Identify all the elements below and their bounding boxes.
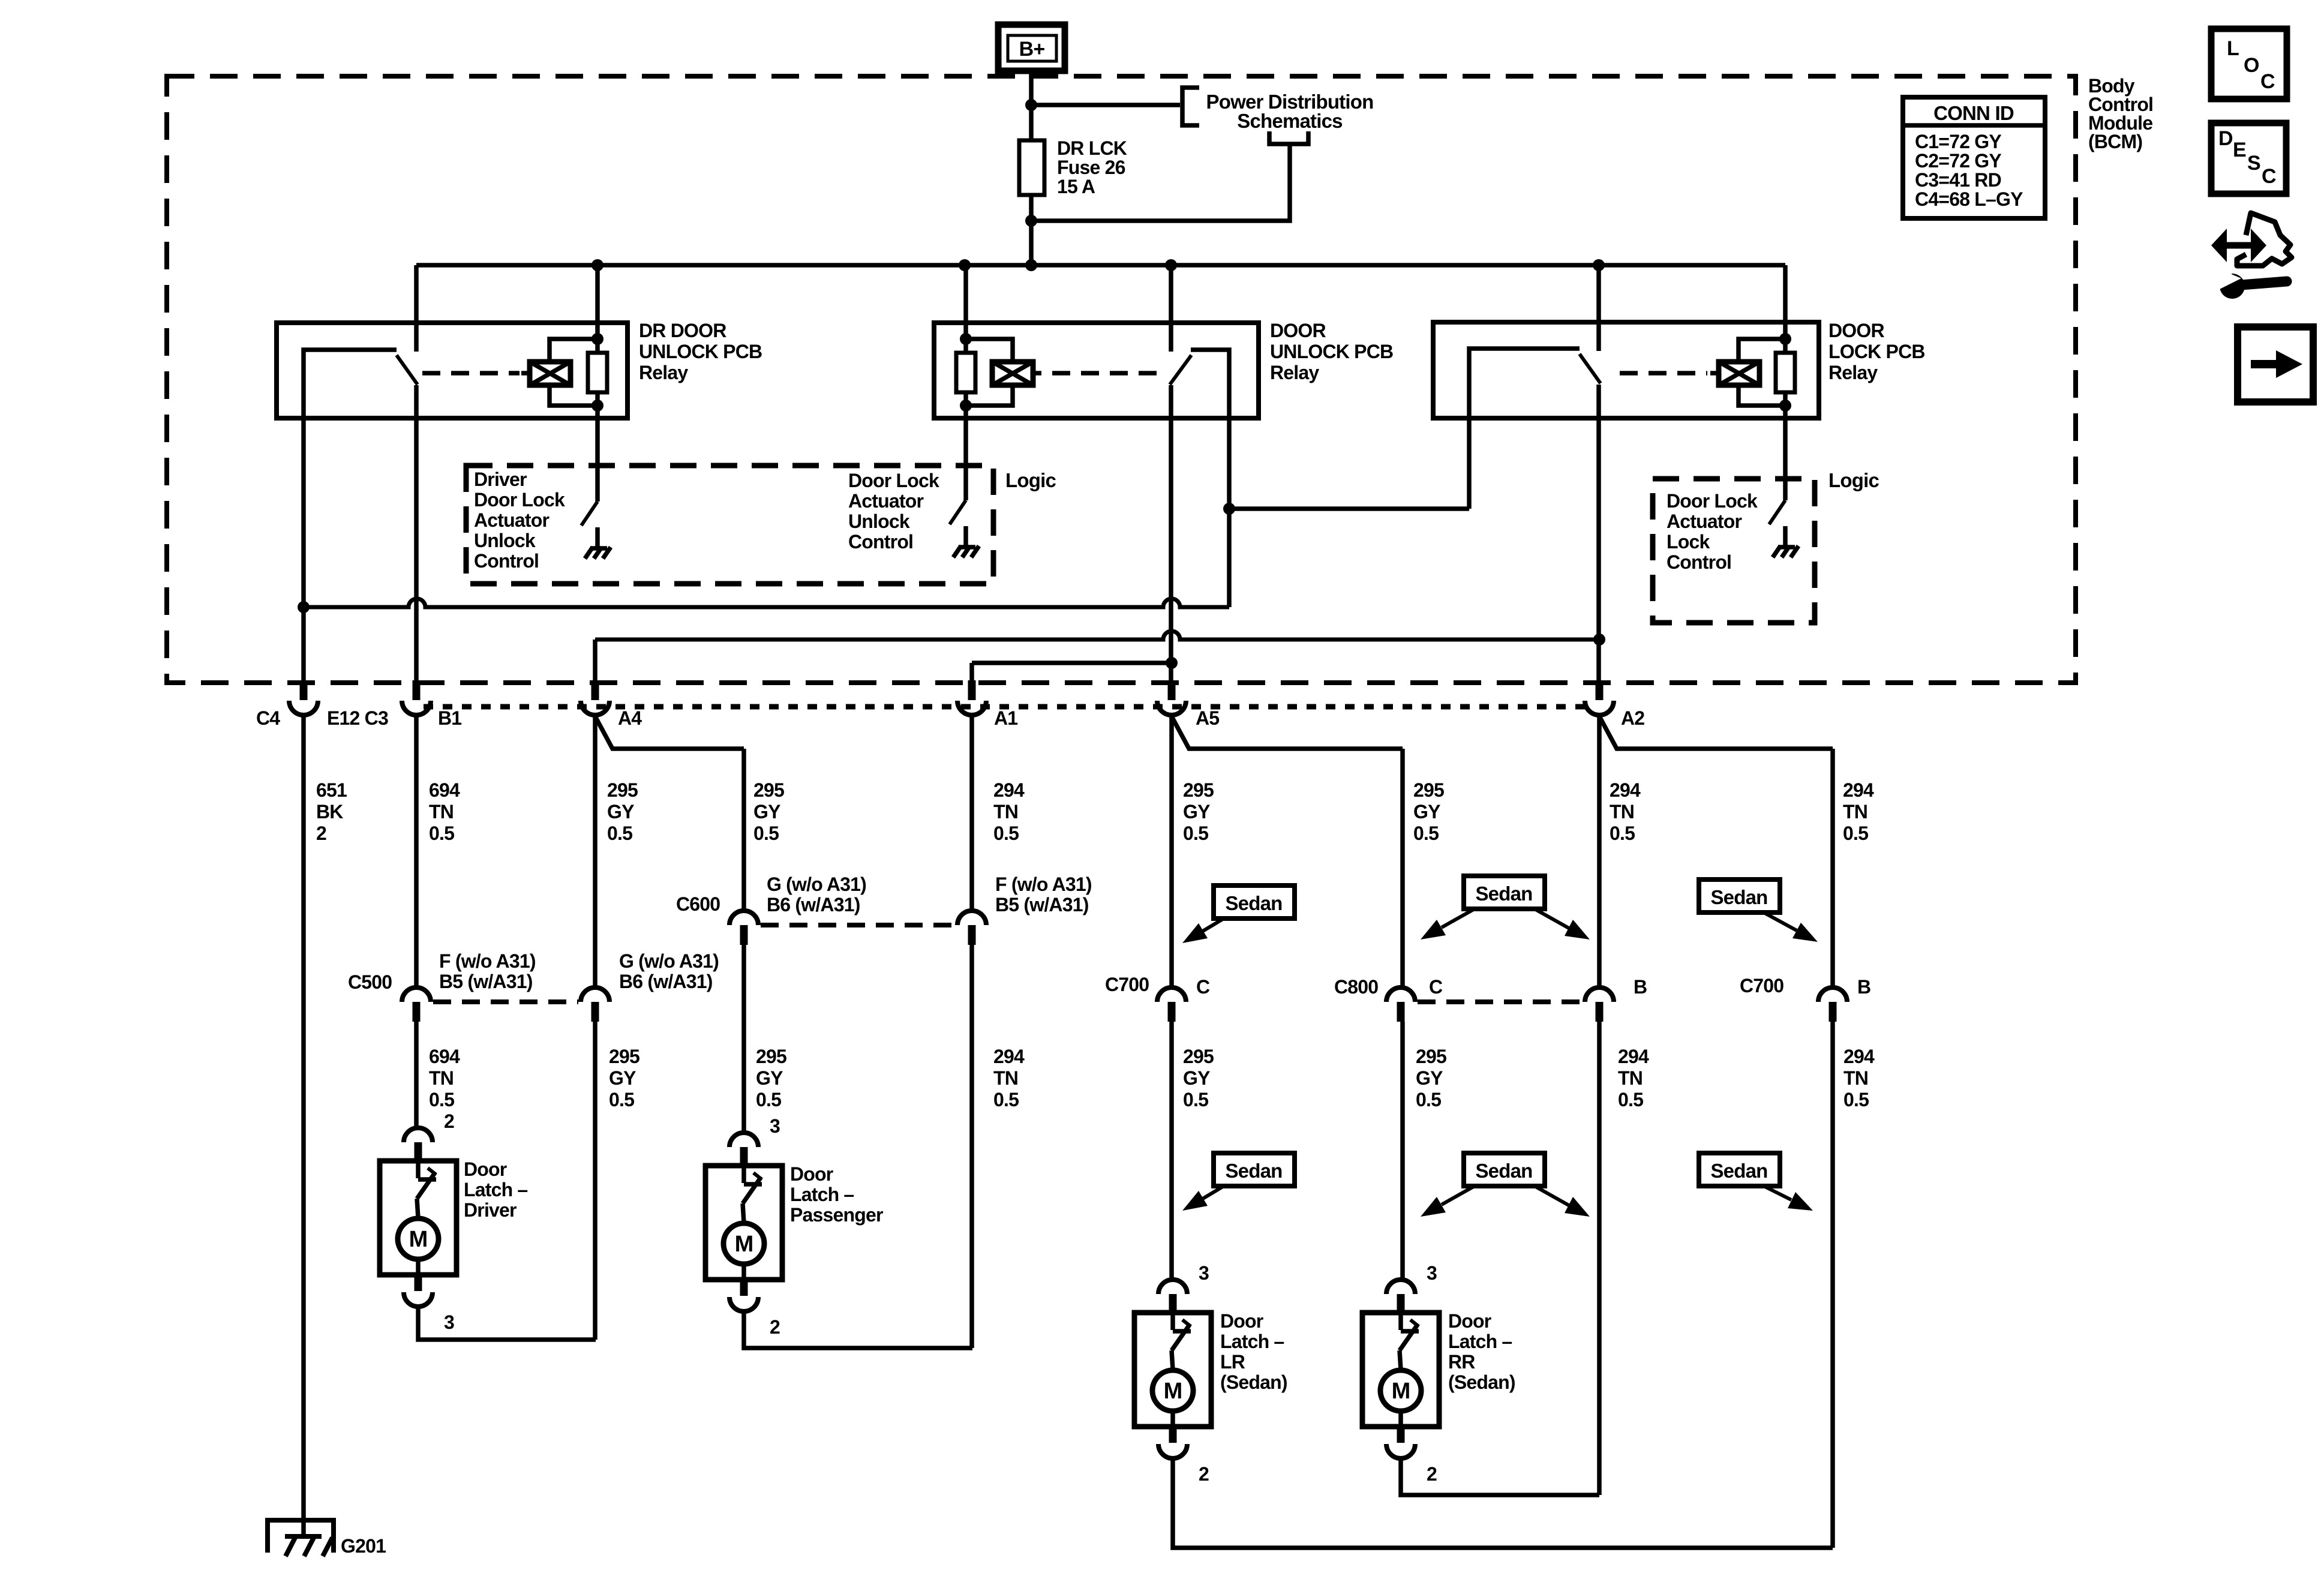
svg-text:2: 2 [1199,1463,1209,1485]
svg-text:0.5: 0.5 [429,1089,454,1110]
wire A2 294 TN to C800 [1597,715,1602,987]
actuator1 unlock control switch [581,502,597,526]
svg-text:A4: A4 [618,707,642,729]
svg-text:Actuator: Actuator [848,490,924,512]
svg-text:B6 (w/A31): B6 (w/A31) [767,894,860,915]
svg-text:C600: C600 [676,893,720,915]
BCM pin A1 shell stub [968,680,976,700]
relay3 coil stub [1710,371,1719,376]
wire relay2-relay3 switch link [1229,506,1469,511]
label Logic (unlock) [1005,469,1056,491]
svg-text:C3=41 RD: C3=41 RD [1915,169,2001,191]
svg-text:GY: GY [756,1067,783,1089]
junction dot bus relay1 coil [591,259,603,271]
svg-text:C500: C500 [348,971,392,993]
svg-text:294: 294 [1843,779,1874,801]
wire bus to relay1 switch pivot [414,265,419,352]
motor M door latch driver [398,1218,439,1259]
door latch passenger pin 2 connector [729,1280,758,1311]
motor M door latch passenger [723,1223,764,1264]
wire A4 295 GY to C500 [593,715,597,987]
relay2 coil dashed link [1052,371,1163,376]
wire tap to power distribution bracket [1031,103,1180,107]
label wire 694 TN 0.5 (B1) [429,779,460,844]
door latch passenger internal switch [743,1166,762,1223]
svg-text:0.5: 0.5 [607,822,632,844]
wire 294 TN below C700 right [1830,1022,1835,1548]
door latch driver internal switch [417,1161,436,1218]
svg-text:2: 2 [770,1316,780,1338]
BCM pin C4 connector [289,701,318,715]
svg-text:A1: A1 [994,707,1017,729]
svg-text:694: 694 [429,779,460,801]
svg-text:TN: TN [1843,801,1867,822]
BCM pin A4 shell stub [591,680,599,700]
svg-text:Control: Control [848,531,913,553]
svg-text:GY: GY [609,1067,636,1089]
label C500 pin F codes [439,950,536,992]
connector C700 pin C [1157,987,1186,1022]
svg-text:0.5: 0.5 [1416,1089,1441,1110]
relay K2 DOOR UNLOCK PCB box [934,323,1259,418]
actuator3 lock control switch [1769,500,1785,524]
junction dot bus relay2 switch [1165,259,1177,271]
svg-text:3: 3 [444,1311,454,1333]
wire driver latch return [418,1308,596,1340]
label wire 294 TN 0.5 (A2 branch) [1843,779,1874,844]
svg-text:S: S [2247,152,2260,175]
wire passenger latch return [744,1313,972,1348]
resistor R1 relay1 [588,353,607,392]
svg-text:Relay: Relay [1270,362,1319,383]
relay2 coil stub [1033,371,1041,376]
label C700 left [1105,974,1149,995]
fuse F26 DR LCK [1019,140,1044,195]
svg-text:0.5: 0.5 [1413,822,1439,844]
svg-text:TN: TN [993,801,1018,822]
label wire 294 TN 0.5 (A1) [993,779,1025,844]
svg-text:DR LCK: DR LCK [1057,137,1127,159]
svg-text:GY: GY [1416,1067,1443,1089]
wire 294 TN branch to C700 [1830,749,1835,987]
door latch driver box [380,1161,457,1275]
svg-text:D: D [2218,127,2233,150]
door latch RR pin 3 connector [1386,1280,1415,1311]
svg-text:Sedan: Sedan [1475,1160,1532,1182]
icon LOC box [2211,29,2287,99]
svg-text:(BCM): (BCM) [2088,131,2142,152]
svg-text:C4: C4 [256,707,280,729]
svg-text:295: 295 [1183,779,1214,801]
svg-text:Driver: Driver [474,469,527,490]
door latch passenger pin 3 connector [729,1133,758,1164]
svg-text:DOOR: DOOR [1270,320,1326,341]
label door latch RR [1448,1310,1515,1393]
svg-text:651: 651 [316,779,347,801]
door latch driver pin 3 connector [404,1275,433,1307]
svg-text:GY: GY [607,801,634,822]
label relay2 DOOR UNLOCK PCB Relay [1270,320,1393,383]
wire 294 TN below C800 [1597,1022,1602,1495]
svg-text:Door Lock: Door Lock [848,470,939,491]
junction dot A2 link [1593,634,1605,646]
door latch driver pin 2 connector [404,1128,433,1160]
label pin A4 [618,707,642,729]
icon wrench and arrows [2211,213,2292,299]
svg-text:GY: GY [1413,801,1440,822]
svg-text:Logic: Logic [1005,469,1056,491]
wire bus to relay1 resistor [595,265,600,353]
resistor R3 relay3 [1776,353,1795,392]
wire 295 GY branch to C800 [1400,749,1405,987]
wire 694 TN to driver latch [414,1022,419,1128]
junction dot bus fuse [1025,259,1037,271]
door latch LR internal switch [1172,1313,1191,1370]
svg-text:M: M [1392,1379,1410,1404]
BCM pin A5 shell stub [1168,680,1176,700]
svg-text:DR DOOR: DR DOOR [639,320,726,341]
svg-text:TN: TN [1618,1067,1643,1089]
junction dot relay2 switch branch [1223,503,1235,515]
label door latch driver pin 2 [444,1110,454,1132]
label C600 [676,893,720,915]
relay1 coil bottom jumper [550,385,597,406]
door latch RR pin 2 connector [1386,1427,1415,1458]
svg-text:B5 (w/A31): B5 (w/A31) [995,894,1089,915]
label wire 295 GY 0.5 (A5) [1183,779,1214,844]
wire B1 694 TN to C500 [414,715,419,987]
label Logic (lock) [1828,469,1879,491]
svg-text:Schematics: Schematics [1237,110,1342,132]
svg-text:294: 294 [993,779,1025,801]
svg-text:M: M [735,1232,753,1257]
svg-text:Fuse 26: Fuse 26 [1057,157,1125,178]
wire A1 294 TN to C600 [969,715,974,911]
svg-text:294: 294 [1610,779,1641,801]
svg-text:UNLOCK PCB: UNLOCK PCB [1270,341,1393,362]
svg-text:C4=68 L–GY: C4=68 L–GY [1915,188,2023,210]
label wire 694 TN 0.5 lower [429,1046,460,1110]
BCM pin C4 shell stub [300,680,308,700]
svg-text:F (w/o A31): F (w/o A31) [995,873,1092,895]
svg-text:E12 C3: E12 C3 [327,707,388,729]
label Door Lock Actuator Unlock Control [848,470,939,553]
label door latch LR pin 3 [1199,1262,1209,1284]
svg-text:Relay: Relay [1828,362,1878,383]
svg-text:0.5: 0.5 [1843,1089,1869,1110]
svg-text:(Sedan): (Sedan) [1220,1371,1287,1393]
connector C800 pin B [1585,987,1614,1022]
svg-text:C700: C700 [1740,975,1783,996]
junction dot schematics return [1025,215,1037,227]
svg-text:0.5: 0.5 [1618,1089,1643,1110]
label C800 pin C [1429,976,1443,998]
ground actuator1 [585,527,611,559]
svg-text:Passenger: Passenger [790,1204,883,1226]
wire relay3 to actuator3 switch [1783,392,1788,500]
svg-text:Unlock: Unlock [848,511,910,532]
svg-text:Latch –: Latch – [1448,1331,1512,1352]
door latch RR motor leads [1398,1411,1403,1427]
wire 295 GY below C500 [593,1022,597,1340]
wire A2 from relay3 [1596,385,1601,680]
svg-text:RR: RR [1448,1351,1475,1373]
svg-text:B5 (w/A31): B5 (w/A31) [439,971,533,992]
wire relay1 to actuator1 switch [595,392,600,502]
svg-text:M: M [409,1227,428,1252]
label Body Control Module (BCM) [2088,75,2153,152]
label door latch passenger pin 3 [770,1115,780,1137]
svg-text:295: 295 [607,779,638,801]
svg-text:0.5: 0.5 [756,1089,781,1110]
svg-text:0.5: 0.5 [429,822,454,844]
wire 295 GY below C700 [1169,1022,1174,1280]
svg-text:G201: G201 [341,1535,386,1557]
svg-text:3: 3 [1199,1262,1209,1284]
svg-text:GY: GY [753,801,780,822]
label wire 295 GY 0.5 lower (passenger) [756,1046,786,1110]
label C800 [1334,976,1378,998]
svg-text:Door: Door [464,1158,507,1180]
svg-text:E: E [2233,139,2246,161]
svg-text:Actuator: Actuator [474,509,550,531]
label wire 294 TN 0.5 lower (right) [1843,1046,1875,1110]
wire A4 branch diagonal [595,716,744,749]
wire A4 down [593,640,597,680]
svg-text:295: 295 [753,779,784,801]
svg-text:CONN ID: CONN ID [1933,102,2014,124]
wire LR latch return [1173,1457,1833,1548]
svg-text:LOCK PCB: LOCK PCB [1828,341,1925,362]
wire bus to relay3 resistor [1783,265,1788,353]
svg-text:B: B [1634,976,1647,998]
svg-text:B1: B1 [438,707,461,729]
svg-text:C: C [2262,165,2276,188]
svg-text:A5: A5 [1196,707,1219,729]
svg-text:15 A: 15 A [1057,176,1095,197]
label pin C4 [256,707,280,729]
wire A5 branch diagonal [1172,716,1403,749]
icon forward arrow box [2238,327,2313,402]
svg-text:C2=72 GY: C2=72 GY [1915,150,2001,172]
label C700 pin C [1196,976,1210,998]
label door latch driver pin 3 [444,1311,454,1333]
svg-text:2: 2 [316,822,326,844]
svg-text:0.5: 0.5 [993,1089,1019,1110]
svg-text:295: 295 [756,1046,786,1067]
svg-text:G (w/o A31): G (w/o A31) [767,873,866,895]
wire A2 branch diagonal [1599,716,1833,749]
label door latch RR pin 3 [1427,1262,1437,1284]
svg-text:Sedan: Sedan [1710,1160,1767,1182]
connector C600 pin G [729,911,758,945]
wire bus to relay2 switch pivot [1169,265,1173,352]
svg-text:C: C [2260,70,2275,93]
connector C500 pin G [581,987,609,1022]
svg-text:Latch –: Latch – [790,1184,854,1205]
label Driver Door Lock Actuator Unlock Control [474,469,565,572]
label pin A2 [1621,707,1644,729]
label wire 295 GY 0.5 lower (driver) [609,1046,639,1110]
door latch passenger box [705,1166,782,1280]
icon DESC box [2211,123,2286,194]
wire 295 GY below C600 [741,945,746,1134]
label pin B1 [438,707,461,729]
BCM pin A4 connector [581,701,609,715]
svg-text:Door: Door [790,1163,833,1185]
junction dot power distribution tap [1025,99,1037,111]
relay3 coil dashed link [1620,371,1707,376]
wire bus to relay3 switch pivot [1596,265,1601,351]
table CONN ID [1903,97,2045,218]
svg-text:L: L [2227,37,2239,60]
relay K1 DR DOOR UNLOCK PCB box [277,323,627,418]
svg-text:C: C [1196,976,1210,998]
svg-text:694: 694 [429,1046,460,1067]
label wire 295 GY 0.5 (A5 branch) [1413,779,1444,844]
wire A1 down [969,663,974,680]
svg-text:C800: C800 [1334,976,1378,998]
svg-text:Sedan: Sedan [1225,892,1282,914]
wire fuse to bus [1029,195,1034,265]
ground G201 symbol [268,1520,334,1556]
coil L1 relay1 [530,362,571,385]
coil L2 relay2 [992,362,1033,385]
relay1 coil dashed link [422,371,520,376]
svg-text:TN: TN [429,801,454,822]
svg-text:Logic: Logic [1828,469,1879,491]
ground actuator2 [953,526,979,557]
wire A4 to A2 link [595,631,1599,640]
wire C4 down [301,607,306,680]
svg-text:TN: TN [1843,1067,1868,1089]
relay1 coil top jumper [550,339,597,362]
label DR LCK Fuse 26 15 A [1057,137,1127,197]
wire 295 GY branch to C600 [741,749,746,911]
label pin A1 [994,707,1017,729]
label wire 295 GY 0.5 (A4) [607,779,638,844]
svg-text:GY: GY [1183,1067,1210,1089]
label C600 pin F codes [995,873,1092,915]
svg-text:0.5: 0.5 [1843,822,1868,844]
svg-text:3: 3 [1427,1262,1437,1284]
svg-text:Control: Control [474,550,539,572]
svg-text:Door Lock: Door Lock [474,489,565,511]
svg-text:0.5: 0.5 [753,822,779,844]
label wire 295 GY 0.5 lower (LR) [1183,1046,1214,1110]
svg-text:GY: GY [1183,801,1210,822]
BCM dashed border box [167,76,2076,683]
wire bus to relay2 resistor [963,265,968,353]
svg-text:Unlock: Unlock [474,530,536,551]
wire C4 651 BK to G201 [301,715,306,1536]
power feed B+ box [998,25,1065,71]
label door latch RR pin 2 [1427,1463,1437,1485]
relay2 coil bottom jumper [966,385,1013,406]
svg-text:2: 2 [444,1110,454,1132]
label C600 pin G codes [767,873,866,915]
svg-text:G (w/o A31): G (w/o A31) [619,950,719,972]
relay3 switch arm [1580,354,1601,383]
svg-text:3: 3 [770,1115,780,1137]
svg-text:TN: TN [429,1067,454,1089]
svg-text:C: C [1429,976,1443,998]
junction dot relay3 top [1779,333,1791,345]
wire schematics return to fuse wire [1031,144,1290,221]
relay2 switch arm [1170,355,1191,385]
svg-text:294: 294 [993,1046,1025,1067]
door latch LR pin 2 connector [1158,1427,1187,1458]
svg-text:BK: BK [316,801,343,822]
actuator2 unlock control switch [950,500,966,524]
relay3 coil bottom jumper [1739,385,1785,406]
door latch LR pin 3 connector [1158,1280,1187,1311]
label pin A5 [1196,707,1219,729]
label relay1 DR DOOR UNLOCK PCB Relay [639,320,762,383]
svg-text:Door: Door [1448,1310,1491,1332]
relay1 switch arm [397,355,418,385]
tag Sedan lower right [1699,1153,1813,1211]
relay3 coil top jumper [1739,339,1785,362]
resistor R2 relay2 [956,353,975,392]
motor M door latch RR [1380,1370,1421,1411]
svg-text:295: 295 [609,1046,639,1067]
svg-text:TN: TN [1610,801,1634,822]
svg-text:Door: Door [1220,1310,1263,1332]
wire A5 from relay2 [1169,385,1173,680]
BCM pin A2 shell stub [1596,680,1604,700]
BCM pin A1 connector [957,701,986,715]
bracket power distribution schematics [1182,88,1199,125]
label wire 651 BK 2 [316,779,347,844]
svg-text:Latch –: Latch – [1220,1331,1284,1352]
label C700 pin B [1857,976,1870,998]
svg-text:0.5: 0.5 [1183,1089,1208,1110]
svg-text:0.5: 0.5 [993,822,1019,844]
svg-text:295: 295 [1416,1046,1446,1067]
label wire 294 TN 0.5 lower (A1) [993,1046,1025,1110]
door latch LR box [1134,1313,1211,1427]
C800 dashed link [1418,999,1583,1004]
wire 295 GY below C800 [1400,1022,1405,1280]
connector C700 pin B [1818,987,1847,1022]
svg-text:0.5: 0.5 [609,1089,634,1110]
svg-text:C700: C700 [1105,974,1149,995]
label conn E12 C3 [327,707,388,729]
svg-text:Sedan: Sedan [1710,886,1767,908]
label G201 [341,1535,386,1557]
motor M door latch LR [1152,1370,1193,1411]
label C500 [348,971,392,993]
label door latch LR [1220,1310,1287,1393]
relay2 switch fixed contact [1191,350,1229,607]
svg-text:F (w/o A31): F (w/o A31) [439,950,536,972]
svg-text:B6 (w/A31): B6 (w/A31) [619,971,713,992]
svg-text:B+: B+ [1019,38,1045,61]
svg-text:M: M [1164,1379,1182,1404]
svg-text:295: 295 [1413,779,1444,801]
wire ground link C4 to relay2 switch [304,599,1229,607]
tag Sedan upper middle [1421,876,1590,939]
BCM pin A2 connector [1585,701,1614,715]
svg-text:Driver: Driver [464,1199,517,1221]
svg-text:UNLOCK PCB: UNLOCK PCB [639,341,762,362]
svg-text:Lock: Lock [1667,531,1710,553]
door latch LR motor leads [1170,1411,1175,1427]
junction dot relay3 bottom [1779,400,1791,412]
svg-text:0.5: 0.5 [1183,822,1208,844]
wire relay2 to actuator2 switch [963,392,968,500]
